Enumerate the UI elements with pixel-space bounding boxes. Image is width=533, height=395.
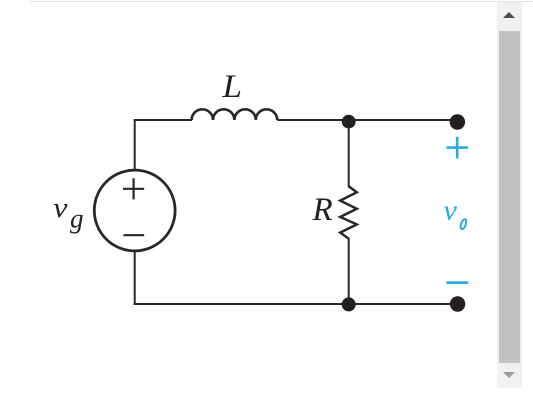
- resistor R zigzag: [340, 186, 357, 238]
- svg-text:R: R: [312, 192, 333, 228]
- source minus sign: [123, 234, 144, 236]
- minus output (cyan): [447, 281, 469, 284]
- inductor L coil: [192, 109, 278, 120]
- svg-text:v: v: [53, 193, 68, 224]
- svg-text:v: v: [443, 195, 457, 226]
- scrollbar track: [497, 2, 522, 388]
- wire: resistor top lead: [348, 121, 350, 187]
- wire: bottom horizontal: [134, 303, 458, 305]
- wire: resistor bottom lead: [348, 238, 350, 304]
- plus output (cyan): [446, 137, 468, 159]
- svg-text:L: L: [221, 69, 242, 105]
- node dot bottom junction: [342, 297, 356, 311]
- wire: source top lead: [134, 120, 136, 171]
- wire: source bottom lead: [134, 251, 136, 306]
- scrollbar down arrow: [503, 372, 515, 378]
- scrollbar up arrow: [503, 12, 515, 18]
- svg-text:g: g: [70, 204, 84, 234]
- terminal dot top right: [450, 114, 465, 129]
- wire: inductor to output terminal: [277, 119, 457, 121]
- scrollbar thumb: [499, 31, 520, 363]
- source plus sign: [123, 178, 144, 199]
- node dot top junction: [342, 115, 356, 129]
- top rule: [30, 1, 533, 2]
- terminal dot bottom right: [450, 296, 465, 311]
- wire: top horizontal to inductor: [134, 119, 192, 121]
- label vo : o subscript (cyan): [459, 219, 467, 230]
- voltage source vg circle: [94, 170, 175, 251]
